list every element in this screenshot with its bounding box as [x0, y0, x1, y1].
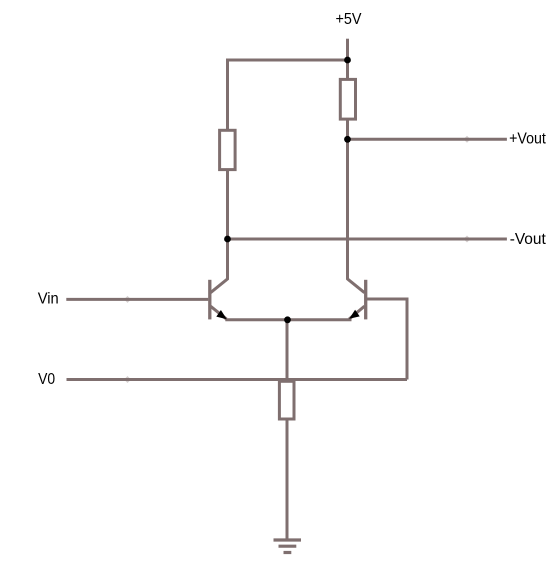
ground bar 2 [279, 545, 297, 548]
wire emitter horizontal [225, 318, 351, 321]
resistor R2 (right load) [340, 79, 355, 119]
ground bar 3 [284, 551, 292, 554]
wire left collector vertical [226, 239, 229, 280]
junction dot at emitter node [284, 316, 291, 323]
wire right base corner vertical [406, 298, 409, 380]
wire left vertical middle [226, 171, 229, 239]
resistor R3 (tail) [279, 381, 294, 419]
transistor Q2 emitter diagonal [349, 306, 365, 319]
junction dot at +Vout node [344, 136, 351, 143]
junction dot at +5V node [344, 57, 351, 64]
junction dot at -Vout node [224, 236, 231, 243]
transistor Q2 emitter arrow [349, 310, 360, 319]
wire V0 horizontal [67, 378, 408, 381]
waypoint mark V0 wire [124, 376, 131, 383]
transistor Q1 collector diagonal [211, 279, 228, 293]
waypoint mark -Vout wire [464, 236, 471, 243]
wire +5V stub [346, 39, 349, 60]
wire tail vertical [286, 320, 289, 381]
wire +Vout horizontal [348, 138, 507, 141]
ground bar 1 [274, 538, 302, 541]
wire bottom vertical to ground [286, 419, 289, 540]
waypoint mark Vin wire [124, 296, 131, 303]
wire right resistor bottom stub [346, 119, 349, 139]
svg-text:Vin: Vin [38, 291, 59, 308]
wire right resistor top stub [346, 60, 349, 79]
resistor R1 (left load) [220, 130, 236, 169]
wire right collector vertical [346, 139, 349, 280]
transistor Q2 base bar [364, 280, 367, 320]
wire top horizontal [226, 59, 348, 62]
transistor Q2 collector diagonal [348, 279, 365, 293]
wire Vin base lead [66, 298, 208, 301]
transistor Q1 emitter arrow [216, 310, 227, 319]
waypoint mark +Vout wire [464, 136, 471, 143]
wire left vertical upper [226, 59, 229, 131]
transistor Q1 emitter diagonal [211, 306, 227, 319]
transistor Q1 base bar [208, 280, 211, 320]
svg-text:-Vout: -Vout [510, 231, 547, 248]
wire right base lead [367, 298, 407, 301]
wire -Vout horizontal [228, 238, 507, 241]
svg-text:+Vout: +Vout [509, 131, 546, 148]
svg-text:V0: V0 [38, 371, 55, 388]
svg-text:+5V: +5V [336, 11, 362, 28]
